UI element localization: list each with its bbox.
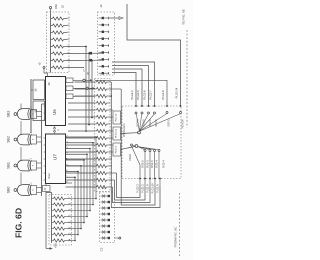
connector C2 pin 5 [101, 219, 108, 221]
RN1 +5V supply node [50, 9, 52, 14]
svg-text:PLG2-7: PLG2-7 [149, 90, 153, 100]
svg-text:RS3-4: RS3-4 [154, 160, 158, 168]
wire RN2-16 left stub [66, 186, 96, 188]
svg-text:SSR-1: SSR-1 [168, 119, 171, 127]
wire switch contact to bottom edge [144, 152, 146, 179]
terminal box TB2 PLG2-13 [113, 127, 121, 140]
svg-text:SB1: SB1 [7, 162, 11, 169]
svg-text:PLG2-5: PLG2-5 [136, 90, 140, 100]
wire gate bus to U7 [42, 103, 46, 105]
rotary switch wiper 2 [135, 145, 138, 148]
wire return loop U4 [115, 180, 146, 200]
svg-text:U6: U6 [52, 109, 57, 115]
gate SB0 input box [31, 186, 37, 195]
connector C2 bottom-right stub [115, 237, 119, 239]
junction at switch top edge [180, 105, 182, 107]
wire RN2-8 left stub [68, 130, 95, 132]
wire B1 to bar [31, 89, 33, 91]
resistor RN2-9 [97, 136, 107, 139]
resistor RN2-1 [97, 80, 107, 83]
svg-text:C2: C2 [100, 247, 104, 251]
wire buffer3 out [73, 95, 95, 97]
resistor RN2-16 [97, 185, 107, 188]
resistor RN1-6 [51, 53, 53, 55]
wire switch contact to bottom edge [158, 152, 160, 179]
resistor RN1-1 [51, 18, 53, 20]
wire RN3-7 stub to bus drop [69, 234, 79, 236]
junction at switch bottom edge [154, 178, 156, 180]
resistor RN1-3 [51, 32, 53, 34]
junction at switch bottom edge [149, 178, 151, 180]
terminal box 27 below U7 [43, 186, 51, 192]
connector C2 pin 7 [101, 231, 108, 233]
gate SB2 input wires [37, 136, 42, 138]
junction at switch top edge [154, 105, 156, 107]
test point circle 1 [83, 79, 85, 81]
wire U7 pin to RN3 row 8 [66, 177, 76, 240]
resistor RN2-5 [97, 108, 107, 111]
svg-text:+5: +5 [38, 62, 42, 66]
wire RN2-5 left stub [68, 109, 95, 111]
U7 +5 supply node [43, 67, 45, 69]
wire RN2 row stub right 180 [110, 179, 115, 181]
wire harness line 2 to PLG2 drop [112, 66, 149, 107]
gate SB3 input box [31, 110, 37, 119]
gate SB2 bubble [14, 138, 17, 141]
wire buffer1 to test point [73, 79, 83, 81]
wire U7 pin 9 stub [66, 182, 73, 184]
svg-text:RS1-5: RS1-5 [150, 160, 154, 168]
U6 left pin ticks [44, 105, 46, 107]
IC U6 outline [46, 77, 66, 126]
U6 output buffer box 1 [66, 78, 73, 83]
wire RN2 row2 stub right [110, 88, 121, 90]
wire RN3-3 stub to bus drop [69, 210, 91, 212]
svg-text:PLG1-8: PLG1-8 [156, 184, 159, 193]
resistor RN2-2 [97, 87, 107, 90]
resistor RN3-5 [52, 222, 54, 224]
wire RN1 row8 stub [68, 67, 85, 69]
rotary switch 2 left contact [131, 144, 133, 146]
svg-text:RCV-6: RCV-6 [149, 119, 152, 127]
wire RN2-9 left stub [66, 137, 96, 139]
resistor RN3-8 [52, 240, 54, 242]
wire harness line 3 to PLG2 drop [112, 69, 142, 107]
rotary switch 2 contacts [144, 150, 146, 152]
page boundary dashed line to FIG. 6E [186, 30, 188, 128]
svg-text:PLG2-24: PLG2-24 [174, 87, 178, 98]
wire RN3-5 stub to bus drop [69, 222, 85, 224]
resistor RN2-4 [97, 101, 107, 104]
resistor RN1-7 [51, 60, 53, 62]
wire return loop U5 [117, 173, 141, 198]
U7 input latch box B1 [33, 80, 45, 100]
svg-text:PLG2-13: PLG2-13 [116, 128, 118, 138]
gate SB3 input wires [37, 111, 42, 113]
connector C2 pin 2 [101, 201, 108, 203]
wire RN1 row6 to bus B [88, 52, 90, 54]
gate SB3 bubble [14, 113, 17, 116]
wire RN1 row6 to connector J2 [68, 52, 102, 54]
svg-text:PLG2-2: PLG2-2 [130, 90, 134, 100]
wire gate chain 0 [20, 104, 22, 109]
gate SB3 body [17, 109, 29, 120]
wire bus bar left of U7 [30, 79, 32, 133]
wire U7 pin to RN3 row 5 [66, 160, 85, 223]
wire bus B vertical [88, 54, 90, 125]
wire U7 pin to RN3 row 2 [66, 143, 94, 205]
svg-text:SB3: SB3 [7, 111, 11, 118]
gate SB0 bubble [14, 189, 17, 192]
resistor network RN1 dashed outline [47, 12, 70, 73]
resistor RN2-7 [97, 122, 107, 125]
junction at switch bottom edge [159, 178, 161, 180]
svg-text:FROM FIG. 6C: FROM FIG. 6C [174, 226, 178, 248]
inter-IC coupling symbols [54, 127, 56, 129]
RN1 common bus wire [50, 14, 52, 73]
wire switch contact to bottom edge [154, 152, 156, 179]
resistor RN3-3 [52, 210, 54, 212]
wire harness line 5 to PLG2-8 drop [95, 80, 167, 106]
connector J2 pin 5 pad [102, 44, 104, 46]
svg-text:RCV-5: RCV-5 [143, 119, 146, 127]
gate SB1 input box [31, 161, 37, 170]
wire B2 to bar [31, 109, 33, 111]
svg-text:Bout: Bout [48, 173, 51, 178]
wire switch contact to bottom edge [149, 152, 151, 179]
connector C2 pin 8 [101, 237, 108, 239]
svg-text:RS2-4: RS2-4 [162, 160, 166, 168]
switch block S1 dashed outline [122, 106, 181, 179]
wire RN1 row5 to bus A [68, 46, 87, 48]
wire RN2 row stub right 166 [110, 165, 112, 167]
gate SB1 input wires [37, 162, 42, 164]
terminal box TB3 PLG2-3 [113, 143, 121, 156]
wire gate chain 2 [20, 147, 22, 160]
gate SB2 body [17, 134, 29, 145]
resistor RN2-8 [97, 129, 107, 132]
wire RN2-12 left stub [66, 158, 96, 160]
connector J2 pin 9 pad [102, 72, 104, 74]
wire return loop U1 [111, 82, 160, 208]
gate SB2 input box [31, 135, 37, 144]
resistor RN2-15 [97, 178, 107, 181]
rotary switch 1 contacts [135, 112, 137, 114]
wire gate chain 3 [20, 173, 22, 185]
connector J2 pin 8 pad [102, 65, 104, 67]
U7 left pin ticks [44, 137, 46, 139]
wire RN2 row stub right 173 [110, 172, 117, 174]
resistor RN2-11 [97, 150, 107, 153]
wire RN2-13 left stub [66, 165, 96, 167]
inline pad on row6 [89, 52, 92, 55]
svg-text:SB0: SB0 [7, 187, 11, 194]
resistor RN3-6 [52, 228, 54, 230]
connector J2 dashed outline [98, 12, 115, 75]
connector J2 pin 3 pad [102, 31, 104, 33]
wire RN2 rows to terminal box TB3 [110, 144, 113, 146]
svg-text:PLG2-2: PLG2-2 [136, 184, 139, 193]
wire RN3-4 stub to bus drop [69, 216, 88, 218]
junction at switch top edge [141, 105, 143, 107]
wire bus C vertical [91, 61, 93, 118]
U6 output buffer box 2 [66, 86, 73, 91]
resistor RN3-1 [52, 198, 54, 200]
svg-text:PLG-10: PLG-10 [116, 113, 118, 121]
wire return loop U2 [121, 89, 155, 205]
wire RN3-2 stub to bus drop [69, 204, 94, 206]
wire RN2-6 left stub [68, 116, 95, 118]
resistor RN2-14 [97, 171, 107, 174]
svg-text:RS3-PLG2-9: RS3-PLG2-9 [124, 123, 126, 137]
connector J2 pin 2 pad [102, 24, 104, 26]
wire harness line 4 to PLG2 drop [112, 73, 136, 107]
wire bottom column [139, 179, 141, 187]
resistor RN1-4 [51, 39, 53, 41]
inline pad on row7 [89, 59, 92, 62]
connector J2 pin 1 pad [102, 17, 104, 19]
wire RN3-6 stub to bus drop [69, 228, 82, 230]
wire harness line 1 to PLG2 drop [112, 62, 155, 107]
connector C2 pin 6 [101, 225, 108, 227]
svg-text:U7: U7 [53, 154, 58, 160]
wire RN3-1 stub to bus drop [69, 198, 97, 200]
svg-text:RS3-5: RS3-5 [140, 160, 144, 168]
wire RN2-14 left stub [66, 172, 96, 174]
+5V arrow at bottom [46, 248, 50, 250]
gate SB1 bubble [14, 164, 17, 167]
gate SB0 body [17, 185, 29, 196]
wire RN2 bottom row stub right [110, 186, 113, 188]
gate SB0 input wires [37, 187, 42, 189]
resistor RN1-2 [51, 25, 53, 27]
resistor network RN2 dashed outline [95, 79, 111, 192]
U7 input latch box B2 [33, 101, 45, 121]
wire bus A vertical [85, 47, 87, 132]
wire bottom column [159, 179, 161, 187]
svg-text:J2: J2 [99, 4, 103, 8]
svg-text:PLG2-6: PLG2-6 [143, 90, 147, 100]
svg-text:R62: R62 [54, 4, 58, 9]
junction at switch top edge [135, 105, 137, 107]
svg-text:26: 26 [47, 82, 51, 85]
wire RN2 row1 stub right [110, 81, 111, 83]
wire U7 pin to RN3 row 1 [66, 137, 97, 199]
wire gate bus vertical [41, 104, 43, 196]
connector J2 pin 7 pad [102, 58, 104, 60]
wire left contact to bottom edge [132, 146, 141, 179]
svg-text:SB2: SB2 [7, 136, 11, 143]
junction at switch top edge [166, 105, 168, 107]
wire RN2-15 left stub [66, 179, 96, 181]
svg-text:PLG1-2: PLG1-2 [141, 184, 144, 193]
wire bottom column [154, 179, 156, 187]
gate SB1 body [17, 160, 29, 171]
wire J2 pin1 output with arrow [109, 17, 119, 19]
connector C2 dashed outline [100, 192, 115, 243]
svg-text:RCV-3: RCV-3 [137, 119, 140, 127]
wire RN2 row stub right 96 [110, 95, 111, 97]
wire U7 pin to RN3 row 7 [66, 172, 79, 235]
terminal box TB1 PLG-10 [113, 111, 121, 124]
resistor RN3-2 [52, 204, 54, 206]
svg-text:RS2-3: RS2-3 [145, 160, 149, 168]
IC U7 outline [46, 134, 66, 184]
connector C2 pin 3 [101, 207, 108, 209]
resistor RN2-6 [97, 115, 107, 118]
resistor RN2-13 [97, 164, 107, 167]
page boundary dashed line from FIG. 6C [179, 193, 181, 256]
svg-text:RS3-8: RS3-8 [129, 153, 132, 160]
wire RN2 row stub right 159 [110, 158, 112, 160]
svg-text:PLG1-9: PLG1-9 [146, 184, 149, 193]
wire gate chain 1 [20, 121, 22, 134]
wire RN2-7 left stub [68, 123, 95, 125]
resistor RN3-7 [52, 234, 54, 236]
wire bottom column [144, 179, 146, 187]
svg-text:PLG1-19: PLG1-19 [151, 183, 154, 194]
resistor RN2-12 [97, 157, 107, 160]
wire RN2-3 left stub [75, 95, 96, 97]
test point circle 2 [86, 87, 88, 89]
wire box 27 down to +5V arrow [45, 192, 47, 249]
svg-text:PLG2-8: PLG2-8 [161, 90, 165, 100]
RN3 common bus wire [51, 197, 53, 244]
wire RN2-10 left stub [66, 144, 96, 146]
wire U7 pin to RN3 row 3 [66, 149, 91, 211]
wire return loop U3 [113, 186, 151, 203]
resistor RN1-8 [51, 67, 53, 69]
junction at switch bottom edge [139, 178, 141, 180]
resistor RN2-10 [97, 143, 107, 146]
wire RN2 rows to terminal box TB1 [110, 109, 113, 111]
resistor RN1-5 [51, 46, 53, 48]
connector J2 pin 6 pad [102, 51, 104, 53]
rotary switch wiper 1 [138, 131, 141, 134]
wire buffer2 to test point [73, 87, 86, 89]
connector J2 pin 4 pad [102, 38, 104, 40]
wire RN2-4 left stub [68, 102, 95, 104]
connector C2 pin 4 [101, 213, 108, 215]
svg-text:RCV-24: RCV-24 [181, 119, 184, 128]
wire RN2 rows to terminal box TB2 [110, 130, 113, 132]
connector C2 pin 1 [101, 195, 108, 197]
wire U7 pin to RN3 row 4 [66, 154, 88, 216]
wire RN2-11 left stub [66, 151, 96, 153]
resistor network RN3 dashed outline [49, 195, 72, 246]
wire RN2-2 left stub [75, 88, 96, 90]
wire RN3-8 stub to bus drop [69, 240, 76, 242]
svg-text:FIG. 6D: FIG. 6D [14, 208, 24, 238]
svg-text:RCV-1: RCV-1 [155, 119, 158, 127]
wire U7 pin to RN3 row 6 [66, 166, 82, 229]
wire U7 bottom to box 27 [45, 184, 47, 186]
svg-text:PLG2-3: PLG2-3 [116, 145, 118, 153]
junction at switch top edge [148, 105, 150, 107]
resistor RN2-3 [97, 94, 107, 97]
U6 output buffer box 3 [66, 94, 73, 99]
wire RN1 row7 to connector J2 [68, 59, 102, 61]
wire RN2-1 left stub [75, 81, 96, 83]
wire bottom column [149, 179, 151, 187]
svg-text:TO FIG. 6E: TO FIG. 6E [182, 9, 186, 25]
wire RN3 bus to supply wire [46, 193, 52, 197]
resistor RN3-4 [52, 216, 54, 218]
junction at switch bottom edge [144, 178, 146, 180]
wire PLG2-24 from top to switch block [127, 4, 181, 107]
